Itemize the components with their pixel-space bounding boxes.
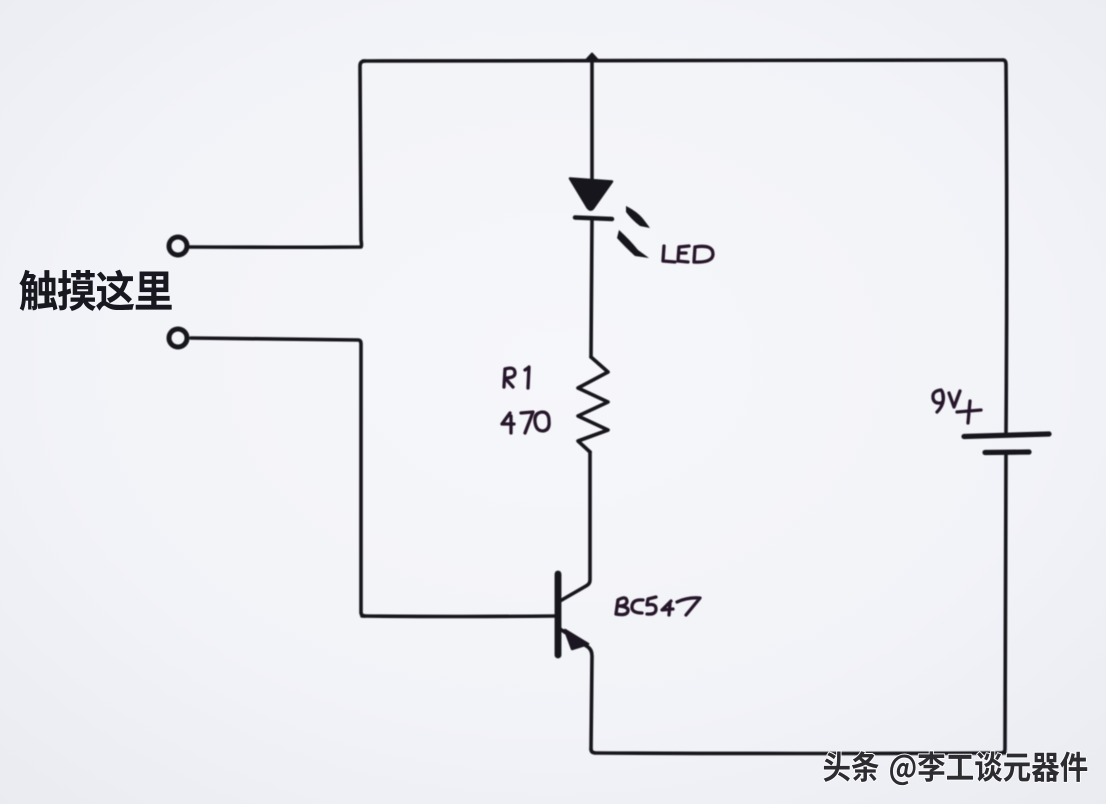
touch terminal 1 ring	[169, 237, 187, 255]
LED light arrow 1	[626, 206, 650, 228]
label LED	[663, 246, 675, 262]
battery BT1 long plate (+)	[964, 434, 1049, 437]
transistor Q1 emitter arrowhead	[565, 630, 588, 649]
wire: LED branch drop from top rail	[590, 62, 594, 181]
wire: terminal2 to base	[191, 338, 365, 616]
label: 触摸这里 (touch here)	[19, 270, 171, 311]
wire: right rail upper (to battery +)	[1003, 60, 1007, 432]
label BC547	[616, 598, 628, 615]
transistor Q1 emitter with arrow	[560, 629, 592, 749]
wire: bottom rail	[591, 749, 1005, 754]
handwritten labels	[502, 246, 981, 615]
wire: LED cathode to resistor top	[591, 219, 592, 357]
label R1	[504, 368, 515, 387]
label 9V+	[933, 390, 944, 412]
node A junction bump on top rail	[586, 54, 598, 61]
wire: top rail	[363, 60, 1003, 61]
wire: base lead	[362, 614, 556, 618]
watermark: 头条 @李工谈元器件	[824, 751, 1088, 785]
LED D1 triangle	[570, 179, 612, 210]
LED light arrow 2	[617, 230, 649, 258]
wire: terminal1 to top rail	[190, 61, 365, 247]
touch terminal 2 ring	[169, 329, 187, 347]
wire: right rail lower (battery - to bottom)	[1001, 453, 1006, 753]
LED D1 cathode bar	[575, 218, 612, 220]
resistor R1 zigzag	[578, 357, 608, 452]
wire: resistor bottom to collector	[560, 452, 590, 601]
battery BT1 short plate (-)	[985, 449, 1029, 455]
label 470	[502, 413, 514, 433]
transistor Q1 base bar	[555, 574, 562, 655]
